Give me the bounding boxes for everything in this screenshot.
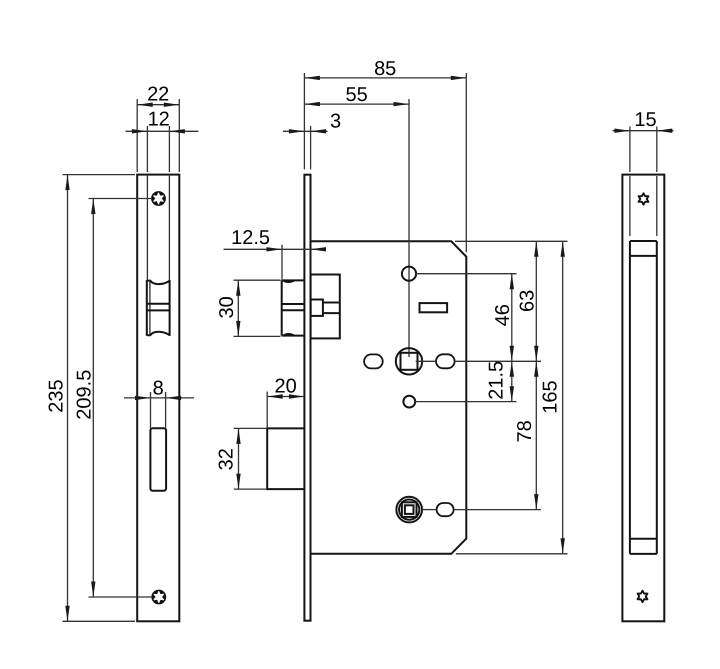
dim 235 arrow bottom: [65, 606, 69, 622]
dim 235 extension line bottom: [63, 620, 136, 622]
dim 209.5 arrow bottom: [91, 582, 95, 598]
middle view left oblong hole: [364, 354, 383, 368]
dim 85 arrow left: [304, 76, 320, 80]
middle view faceplate bar: [304, 175, 310, 621]
dim 22 arrow right: [164, 103, 180, 107]
dim 3 arrow left: [289, 129, 305, 133]
middle view top fixing hole: [402, 267, 416, 281]
extension line middle hole: [415, 401, 516, 403]
dim 15 arrow left: [614, 129, 630, 133]
dim 235 arrow top: [65, 175, 69, 191]
middle view latch channel upper: [323, 302, 340, 304]
svg-text:20: 20: [274, 375, 296, 397]
svg-text:55: 55: [345, 84, 367, 106]
dim 46 arrow bottom: [510, 346, 514, 362]
middle view follower circle: [396, 348, 422, 374]
svg-text:209.5: 209.5: [73, 370, 95, 420]
extension line cylinder axis: [422, 509, 541, 511]
middle view case screw slot: [420, 303, 448, 312]
svg-text:78: 78: [514, 420, 536, 442]
middle view deadbolt: [267, 428, 304, 489]
left view faceplate outline: [137, 175, 179, 622]
middle view lock case outline: [311, 241, 467, 554]
right view hidden edge right: [656, 176, 658, 236]
dim 209.5 extension line top: [89, 198, 152, 200]
dim 209.5 dimension line: [92, 199, 94, 598]
dim 8 arrow right: [166, 396, 182, 400]
dim 32 extension line top: [234, 427, 267, 429]
dim 46 and 21.5 dimension line: [511, 274, 513, 402]
right view faceplate outline: [622, 175, 664, 622]
left view faceplate inner band right edge: [168, 175, 170, 281]
svg-text:15: 15: [634, 109, 656, 131]
svg-text:22: 22: [147, 84, 169, 106]
dim 30 arrow bottom: [236, 321, 240, 337]
extension line top hole: [416, 273, 516, 275]
dim 32 extension line bottom: [234, 488, 267, 490]
middle view bottom cylinder follower: [396, 497, 422, 523]
extension line follower axis: [416, 360, 541, 362]
dim 20 arrow left: [267, 394, 283, 398]
middle view latch bolt: [282, 280, 305, 335]
left view latch bolt outline: [147, 280, 170, 336]
right view case top chamfer edge: [630, 255, 657, 257]
dim 8 dimension line: [124, 397, 194, 399]
dim 55 arrow right: [394, 102, 410, 106]
right view case right edge: [656, 241, 658, 554]
dim 85 extension line right: [465, 73, 467, 252]
dim 15 dimension line: [613, 130, 674, 132]
left view deadbolt slot: [150, 428, 166, 490]
dim 165 dimension line: [562, 241, 564, 554]
right view case left edge: [629, 241, 631, 554]
dim 15 extension line left: [629, 127, 631, 173]
svg-text:21.5: 21.5: [486, 361, 508, 400]
svg-text:63: 63: [517, 290, 539, 312]
dim 85 arrow right: [451, 76, 467, 80]
dim 30 extension line top: [234, 279, 281, 281]
dim 3 arrow right: [311, 129, 327, 133]
dim 12.5 extension line latch tip: [281, 245, 283, 280]
dim 12.5 dimension line: [224, 248, 323, 250]
dim 22 extension line left: [136, 99, 138, 172]
dim 78 arrow bottom: [534, 494, 538, 510]
right view bottom torx screw: [638, 591, 648, 602]
middle view bottom right oblong hole: [437, 503, 454, 516]
dim 63 arrow top: [534, 241, 538, 256]
dim 55 dimension line: [304, 103, 409, 105]
svg-text:12: 12: [148, 108, 170, 130]
dim 85 dimension line: [304, 77, 466, 79]
dim 63 and 78 dimension line: [535, 241, 537, 509]
dim 3 dimension line: [283, 130, 328, 132]
dim 12.5 arrow left: [267, 247, 283, 251]
middle view center line: [408, 99, 410, 357]
dim 20 extension line left: [266, 392, 268, 429]
dim 209.5 extension line bottom: [89, 596, 152, 598]
left view latch bevel line lower: [147, 309, 170, 311]
svg-text:3: 3: [330, 110, 341, 132]
svg-text:46: 46: [492, 304, 514, 326]
right view top torx screw: [639, 193, 649, 204]
dim 85 extension line left: [303, 73, 305, 169]
dim 46 arrow top: [510, 274, 514, 290]
dim 8 arrow left: [135, 396, 151, 400]
dim 21.5 arrow top: [510, 361, 514, 377]
svg-text:32: 32: [215, 448, 237, 470]
dim 209.5 arrow top: [91, 199, 95, 215]
dim 30 arrow top: [236, 280, 240, 296]
middle view middle fixing hole: [403, 396, 415, 408]
left view latch bevel line upper: [147, 303, 170, 305]
svg-text:235: 235: [45, 379, 67, 412]
dim 165 arrow top: [561, 241, 565, 256]
dim 20 arrow right: [289, 394, 305, 398]
dim 165 arrow bottom: [561, 538, 565, 554]
middle view latch channel lower: [323, 312, 340, 314]
dim 32 arrow top: [236, 428, 240, 444]
dim 235 extension line top: [63, 174, 136, 176]
extension line case top: [455, 240, 568, 242]
dim 30 extension line bottom: [234, 335, 281, 337]
dim 12 extension line left: [146, 126, 148, 172]
dim 22 extension line right: [178, 99, 180, 172]
dim 12 arrow left: [132, 129, 148, 133]
dim 235 dimension line: [67, 175, 69, 622]
right view case bottom chamfer edge: [630, 538, 657, 540]
dim 30 dimension line: [237, 280, 239, 336]
right view hidden edge left: [629, 176, 631, 236]
dim 20 dimension line: [267, 396, 304, 398]
dim 12.5 arrow right: [311, 247, 327, 251]
dim 12 arrow right: [169, 129, 185, 133]
dim 12 extension line right: [168, 126, 170, 172]
dim 32 dimension line: [238, 428, 240, 489]
dim 8 extension line left: [150, 392, 152, 428]
dim 22 arrow left: [137, 103, 153, 107]
svg-text:12.5: 12.5: [231, 227, 270, 249]
extension line case bottom: [456, 553, 568, 555]
middle view latch housing: [311, 275, 340, 339]
left view top torx screw: [151, 191, 166, 206]
svg-text:8: 8: [153, 377, 164, 399]
left view faceplate inner band left edge: [146, 175, 148, 281]
dim 63 arrow bottom: [534, 346, 538, 362]
middle view follower square: [401, 353, 418, 370]
dim 78 arrow top: [534, 361, 538, 377]
dim 15 extension line right: [656, 127, 658, 173]
dim 21.5 arrow bottom: [510, 386, 514, 402]
dim 15 arrow right: [657, 129, 673, 133]
dim 3 extension line right: [310, 126, 312, 169]
svg-text:165: 165: [539, 380, 561, 413]
dim 32 arrow bottom: [236, 474, 240, 490]
svg-text:30: 30: [216, 296, 238, 318]
middle view right oblong hole: [436, 354, 455, 368]
dim 12 dimension line: [126, 130, 199, 132]
left view bottom torx screw: [151, 590, 166, 605]
svg-text:85: 85: [374, 58, 396, 80]
dim 22 dimension line: [137, 104, 179, 106]
middle view latch spring box: [311, 300, 323, 316]
dim 55 arrow left: [304, 102, 320, 106]
right view case bottom edge: [630, 553, 657, 555]
dim 8 extension line right: [165, 392, 167, 428]
right view case top edge: [630, 240, 657, 242]
